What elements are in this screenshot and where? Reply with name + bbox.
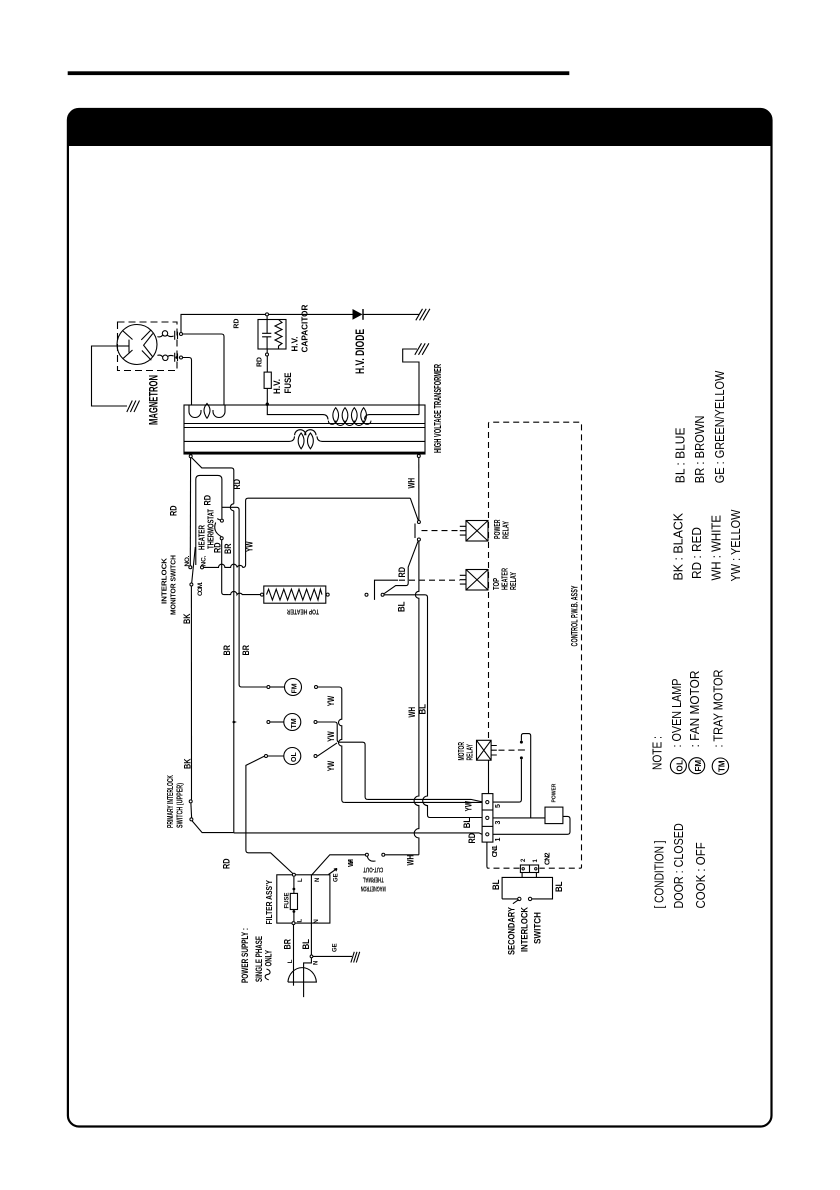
svg-text:DOOR : CLOSED: DOOR : CLOSED bbox=[672, 823, 686, 908]
svg-text:CN2: CN2 bbox=[545, 852, 552, 865]
secondary interlock contact right bbox=[528, 897, 531, 900]
svg-text:MONITOR SWITCH: MONITOR SWITCH bbox=[171, 555, 178, 615]
wire diode to chassis bbox=[363, 313, 419, 315]
svg-text:INTERLOCK: INTERLOCK bbox=[162, 558, 169, 604]
svg-text:L: L bbox=[297, 919, 303, 923]
wire TM right to YW drop bbox=[317, 722, 367, 799]
wire switch top loop to pin3 net bbox=[521, 734, 530, 818]
heater thermostat contact bottom bbox=[220, 537, 223, 540]
svg-text:YW: YW bbox=[244, 541, 254, 552]
svg-text:BR: BR bbox=[223, 543, 233, 554]
wire OL terminal to lamp bbox=[268, 755, 284, 757]
svg-text:YW: YW bbox=[326, 731, 336, 742]
high voltage transformer body bbox=[184, 405, 425, 454]
FM terminal left bbox=[267, 686, 270, 689]
svg-text:GE : GREEN/YELLOW: GE : GREEN/YELLOW bbox=[713, 371, 727, 484]
svg-text:CAPACITOR: CAPACITOR bbox=[301, 304, 310, 352]
primary interlock contact bottom bbox=[190, 818, 193, 821]
CN2 connector body bbox=[520, 865, 538, 873]
wire thermostat bottom to heater line bbox=[222, 540, 229, 595]
svg-text:OL: OL bbox=[291, 752, 298, 762]
wire cut-out left to filter N bbox=[312, 855, 365, 875]
svg-text:BR: BR bbox=[282, 939, 292, 950]
svg-text:FUSE: FUSE bbox=[283, 373, 293, 394]
wire WH transformer to power relay contact bbox=[418, 458, 420, 520]
svg-text:INTERLOCK: INTERLOCK bbox=[520, 907, 530, 952]
ground chassis at plug bbox=[351, 952, 360, 963]
wire terminal diagonal to BR bus bbox=[192, 458, 234, 504]
filter L terminal bottom bbox=[292, 922, 295, 925]
wire BR1 hop over branch line bbox=[230, 504, 233, 511]
svg-text:PRIMARY INTERLOCK: PRIMARY INTERLOCK bbox=[166, 775, 175, 828]
svg-text:ONLY: ONLY bbox=[264, 950, 274, 967]
wire capacitor to fuse bbox=[266, 349, 268, 372]
GE branch to ground bbox=[313, 955, 352, 957]
svg-text:GE: GE bbox=[333, 873, 339, 882]
junction dot BR1 at TM bbox=[233, 721, 236, 724]
svg-text:BR: BR bbox=[222, 645, 232, 656]
CN1 pin 3 bbox=[486, 816, 489, 819]
svg-text:FM: FM bbox=[292, 683, 299, 693]
wire N to plug bbox=[304, 923, 312, 997]
ground chassis at magnetron bbox=[127, 401, 140, 413]
motor relay coil box bbox=[477, 740, 497, 760]
power plug dome bbox=[288, 968, 317, 982]
motor relay linkage dashes bbox=[499, 749, 516, 751]
interlock monitor NC contact bbox=[201, 566, 204, 569]
svg-text:TOP HEATER: TOP HEATER bbox=[287, 607, 319, 614]
magnetron tube bbox=[117, 325, 157, 365]
svg-text:YW: YW bbox=[326, 695, 336, 706]
svg-text:5: 5 bbox=[495, 804, 502, 808]
svg-text:RD: RD bbox=[212, 542, 222, 553]
wire magnetron top terminal to HV bus bbox=[181, 314, 267, 332]
svg-text:RD : RED: RD : RED bbox=[690, 527, 704, 579]
svg-text:N: N bbox=[315, 878, 321, 882]
CN1 connector body bbox=[482, 794, 493, 843]
wire L to plug bbox=[293, 925, 295, 986]
HV secondary winding loops bbox=[328, 408, 371, 426]
OL terminal left bbox=[265, 755, 268, 758]
transformer bottom edge thick bbox=[184, 452, 425, 455]
svg-text:POWER: POWER bbox=[551, 783, 557, 802]
title banner bbox=[68, 109, 772, 146]
secondary interlock contact left bbox=[518, 897, 521, 900]
wire BR2 down to FM bbox=[239, 565, 267, 687]
interlock monitor blade bbox=[192, 547, 196, 583]
svg-text:MAGNETRON: MAGNETRON bbox=[361, 884, 386, 891]
svg-text:WH: WH bbox=[407, 707, 417, 718]
svg-text:RD: RD bbox=[257, 357, 264, 367]
svg-text:BL: BL bbox=[554, 881, 564, 892]
svg-text:TM: TM bbox=[718, 760, 727, 772]
TM terminal right bbox=[314, 721, 317, 724]
junction dot at magnetron bottom terminal bbox=[175, 356, 178, 359]
svg-text:OL: OL bbox=[676, 760, 685, 772]
svg-text:TM: TM bbox=[291, 718, 298, 728]
transformer bottom-left terminal bbox=[189, 455, 192, 458]
magnetron dashed enclosure bbox=[118, 322, 178, 371]
tray motor TM bbox=[284, 714, 301, 731]
transformer primary winding bbox=[184, 436, 425, 441]
HV diode bbox=[353, 309, 364, 320]
label GE arrow at filter bbox=[329, 869, 338, 875]
wire YW pair converge into pin5 bbox=[368, 799, 482, 801]
svg-text:SINGLE PHASE: SINGLE PHASE bbox=[254, 936, 264, 982]
wire RD drop to monitor NO bbox=[189, 458, 191, 565]
transformer bottom-right terminal bbox=[417, 455, 420, 458]
svg-text:GE: GE bbox=[333, 943, 339, 952]
svg-text:RELAY: RELAY bbox=[509, 572, 518, 590]
svg-text:H.V.: H.V. bbox=[290, 337, 299, 352]
POWER unit box bbox=[545, 807, 563, 824]
motor relay switch bar bbox=[518, 749, 525, 751]
svg-text:N: N bbox=[314, 919, 320, 923]
magnetron filament coil top bbox=[157, 335, 162, 337]
svg-text:WH : WHITE: WH : WHITE bbox=[710, 515, 724, 581]
svg-text:WH: WH bbox=[406, 855, 416, 866]
wire pin5 up to switch bottom bbox=[493, 759, 522, 802]
svg-text:HIGH VOLTAGE TRANSFORMER: HIGH VOLTAGE TRANSFORMER bbox=[433, 364, 444, 453]
FM terminal right bbox=[315, 686, 318, 689]
wire CN1 bottom to PWB corner bbox=[487, 842, 488, 868]
svg-text:BK: BK bbox=[182, 613, 192, 624]
svg-text:COOK : OFF: COOK : OFF bbox=[694, 842, 708, 909]
svg-text:RD: RD bbox=[232, 479, 242, 490]
svg-text:: FAN MOTOR: : FAN MOTOR bbox=[688, 671, 702, 748]
svg-text:HEATER: HEATER bbox=[198, 525, 207, 550]
wire magnetron bottom terminal to transformer filament bbox=[183, 358, 192, 405]
wire HV bus to diode bbox=[267, 313, 353, 315]
HV capacitor node top bbox=[266, 313, 269, 316]
power relay actuator bar bbox=[414, 524, 416, 539]
svg-text:RELAY: RELAY bbox=[502, 521, 511, 539]
fan motor FM bbox=[285, 679, 302, 696]
wire FM left bbox=[270, 686, 284, 688]
HV capacitor box bbox=[258, 320, 286, 350]
svg-text:H.V.: H.V. bbox=[272, 379, 282, 394]
HV secondary winding lead right bbox=[365, 415, 420, 420]
wire fuse to transformer bbox=[266, 388, 268, 404]
svg-text:BR : BROWN: BR : BROWN bbox=[693, 416, 707, 484]
svg-text:BK: BK bbox=[183, 758, 193, 769]
svg-text:1: 1 bbox=[495, 838, 502, 842]
svg-text:BR: BR bbox=[241, 645, 251, 656]
wire FM right to YW drop bbox=[318, 687, 345, 802]
svg-text:BL: BL bbox=[491, 879, 501, 890]
top heater relay linkage dashes bbox=[399, 579, 460, 581]
OL terminal right bbox=[314, 755, 317, 758]
filter assy box bbox=[277, 875, 330, 923]
HV capacitor bleed resistor zigzag bbox=[275, 320, 282, 350]
wire pin3 to POWER unit bbox=[493, 817, 545, 819]
svg-text:NC.: NC. bbox=[200, 555, 207, 566]
wire interlock blade to RD rail bbox=[192, 821, 234, 833]
magnetron terminal bottom bbox=[180, 356, 183, 359]
filament winding center loop bbox=[204, 404, 210, 419]
secondary interlock blade bbox=[513, 900, 519, 904]
wire BR1 continues to interlock bottom bbox=[233, 722, 235, 833]
HV secondary winding lead bbox=[267, 404, 328, 419]
wire POWER unit to pin1 bbox=[493, 816, 570, 834]
motor relay switch contact bottom bbox=[520, 756, 523, 759]
power relay contact bottom bbox=[417, 538, 420, 541]
label MAGNETRON THERMAL CUT-OUT (rotated 180) bbox=[361, 865, 386, 891]
svg-text:POWER SUPPLY :: POWER SUPPLY : bbox=[240, 928, 250, 983]
wire thermostat top branch to BR2 bbox=[222, 507, 239, 565]
wire NC to YW riser with hops bbox=[204, 498, 410, 567]
control PWB dashed boundary bbox=[488, 422, 581, 868]
RD rail to CN1 pin1 bbox=[234, 833, 482, 834]
wire magnetron top terminal to transformer filament bbox=[183, 334, 224, 405]
svg-text:3: 3 bbox=[495, 821, 502, 825]
svg-text:RD: RD bbox=[169, 505, 179, 516]
svg-text:RELAY: RELAY bbox=[465, 744, 474, 761]
fuse body bbox=[290, 893, 297, 909]
primary interlock blade bbox=[190, 803, 193, 817]
svg-text:YW : YELLOW: YW : YELLOW bbox=[729, 509, 743, 581]
svg-text:[ CONDITION ]: [ CONDITION ] bbox=[652, 841, 666, 909]
svg-text:BL: BL bbox=[462, 817, 472, 828]
primary interlock contact top bbox=[189, 800, 192, 803]
svg-text:RD: RD bbox=[397, 567, 407, 578]
svg-text:BL : BLUE: BL : BLUE bbox=[674, 428, 688, 484]
heater switch contact left bbox=[365, 593, 368, 596]
power relay coil box bbox=[460, 521, 488, 542]
cut-out blade bbox=[367, 857, 375, 862]
svg-text:FUSE: FUSE bbox=[285, 893, 291, 909]
HV capacitor node bottom bbox=[266, 353, 269, 356]
svg-text:BL: BL bbox=[396, 601, 406, 612]
svg-text:NO.: NO. bbox=[184, 555, 191, 566]
svg-text:BK : BLACK: BK : BLACK bbox=[671, 512, 685, 580]
svg-text:RD: RD bbox=[221, 858, 231, 869]
svg-text:: TRAY MOTOR: : TRAY MOTOR bbox=[712, 670, 726, 748]
magnetron filament coil bottom bbox=[157, 355, 162, 357]
svg-text:H.V. DIODE: H.V. DIODE bbox=[355, 329, 367, 374]
interlock monitor NO contact bbox=[189, 566, 192, 569]
svg-text:RD: RD bbox=[467, 833, 477, 844]
primary winding loops bbox=[298, 433, 313, 449]
svg-text:WH: WH bbox=[407, 478, 417, 489]
svg-text:CUT-OUT: CUT-OUT bbox=[363, 865, 383, 872]
ground chassis at HV winding bbox=[415, 343, 429, 355]
transformer filament winding bbox=[189, 405, 225, 418]
wire magnetron left to chassis bbox=[92, 346, 128, 406]
page border frame bbox=[68, 109, 772, 1127]
top heater resistor body bbox=[264, 586, 326, 603]
heater switch actuator bbox=[375, 580, 399, 600]
svg-text:L: L bbox=[288, 959, 294, 963]
power relay contact blade bbox=[410, 498, 418, 520]
top heater resistor terminal right bbox=[326, 593, 329, 596]
heater thermostat blade bbox=[215, 519, 222, 537]
ground chassis at diode bbox=[416, 309, 430, 321]
wire BK monitor COM down bbox=[190, 586, 192, 799]
wire cut-out right to WH riser bbox=[385, 854, 419, 856]
CN1 pin 5 bbox=[486, 801, 489, 804]
top heater zigzag bbox=[267, 589, 323, 600]
svg-text:: OVEN LAMP: : OVEN LAMP bbox=[670, 679, 684, 748]
svg-text:THERMAL: THERMAL bbox=[362, 875, 383, 882]
magnetron thermal cut-out contact left bbox=[365, 853, 368, 856]
wire power relay bottom contact to heater switch bbox=[384, 541, 418, 593]
HV fuse body bbox=[264, 372, 271, 388]
wire heater switch to BL drop bbox=[384, 595, 482, 818]
oven lamp OL bbox=[284, 748, 301, 765]
power relay contact top bbox=[417, 521, 420, 524]
top heater relay coil box bbox=[460, 570, 488, 591]
filter L wire and fuse bbox=[293, 877, 295, 922]
CN1 pin 1 bbox=[486, 833, 489, 836]
top rule bbox=[68, 71, 570, 75]
svg-text:WH: WH bbox=[348, 859, 355, 867]
svg-text:COM.: COM. bbox=[197, 582, 204, 596]
fuse junction dots bbox=[293, 888, 296, 891]
HV winding ground jog wire bbox=[403, 349, 419, 415]
note OL symbol bbox=[670, 758, 686, 774]
svg-text:FILTER ASS'Y: FILTER ASS'Y bbox=[265, 879, 274, 924]
filter L terminal top bbox=[292, 873, 295, 876]
power relay linkage dashes bbox=[422, 530, 460, 532]
HV capacitor plates bbox=[262, 316, 271, 349]
junction dot fuse to winding bbox=[266, 403, 269, 406]
top heater resistor terminal left bbox=[261, 593, 264, 596]
svg-text:CN1: CN1 bbox=[492, 845, 499, 857]
svg-text:SWITCH (UPPER): SWITCH (UPPER) bbox=[176, 783, 185, 828]
magnetron thermal cut-out contact right bbox=[382, 853, 385, 856]
svg-text:SWITCH: SWITCH bbox=[533, 912, 543, 944]
note FM symbol bbox=[689, 758, 705, 774]
filter N wire bbox=[310, 875, 312, 923]
secondary interlock loop bbox=[502, 873, 552, 899]
wire OL left diagonal to RD drop bbox=[246, 756, 294, 874]
motor relay switch contact top bbox=[520, 741, 523, 744]
wire heater line with hops over BR1 BR2 bbox=[228, 591, 260, 594]
svg-text:N: N bbox=[313, 961, 319, 965]
heater switch contact right bbox=[381, 593, 384, 596]
wire OL right diagonal bbox=[317, 743, 337, 756]
svg-text:FM: FM bbox=[694, 760, 703, 772]
svg-text:BL: BL bbox=[418, 704, 428, 715]
wire TM left bbox=[270, 721, 284, 723]
svg-text:CONTROL P.W.B. ASSY: CONTROL P.W.B. ASSY bbox=[570, 586, 580, 647]
transformer core lines bbox=[184, 424, 425, 428]
heater thermostat contact top bbox=[220, 519, 223, 522]
svg-text:NOTE :: NOTE : bbox=[651, 736, 665, 770]
wire WH relay contact down bbox=[414, 541, 419, 854]
svg-text:YW: YW bbox=[326, 760, 336, 771]
interlock monitor COM contact bbox=[190, 583, 193, 586]
magnetron terminal top bbox=[180, 333, 183, 336]
wire BR1 down to TM bbox=[234, 511, 237, 722]
note TM symbol bbox=[712, 758, 728, 774]
wire PWB edge motor relay to CN1 bbox=[488, 760, 490, 793]
TM terminal left bbox=[267, 721, 270, 724]
svg-text:BL: BL bbox=[301, 939, 311, 950]
svg-text:SECONDARY: SECONDARY bbox=[507, 907, 517, 955]
svg-text:RD: RD bbox=[234, 319, 241, 329]
svg-text:MAGNETRON: MAGNETRON bbox=[149, 375, 161, 425]
heater thermostat body loop bbox=[196, 475, 222, 565]
svg-text:RD: RD bbox=[203, 495, 213, 506]
svg-text:L: L bbox=[298, 878, 304, 882]
